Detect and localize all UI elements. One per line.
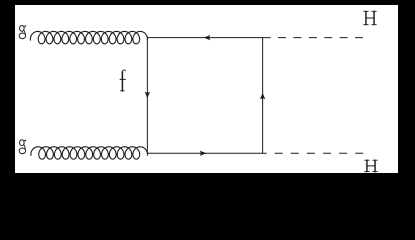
label g (bottom gluon) <box>20 140 25 146</box>
higgs H1 dashed propagator top <box>263 37 363 39</box>
label H (bottom Higgs) <box>367 160 375 171</box>
arrowhead top (left) <box>204 35 211 40</box>
higgs H2 dashed propagator bottom <box>263 152 366 154</box>
label H (top Higgs) <box>366 11 374 24</box>
wire fermion-loop bottom (arrow right) <box>147 152 262 154</box>
label g (top gluon) <box>20 26 25 32</box>
gluon g2 (bottom incoming gluon) <box>31 147 148 159</box>
arrowhead left (down) <box>145 92 150 99</box>
wire fermion-loop top (arrow left) <box>147 37 262 39</box>
gluon g1 (top incoming gluon) <box>30 31 147 43</box>
wire fermion-loop right (arrow up) <box>262 38 264 154</box>
arrowhead right (up) <box>260 93 265 100</box>
arrowhead bottom (right) <box>200 151 207 156</box>
wire fermion-loop left (arrow down) <box>146 38 148 154</box>
label f (loop fermion) <box>121 72 123 91</box>
white canvas <box>15 5 398 173</box>
